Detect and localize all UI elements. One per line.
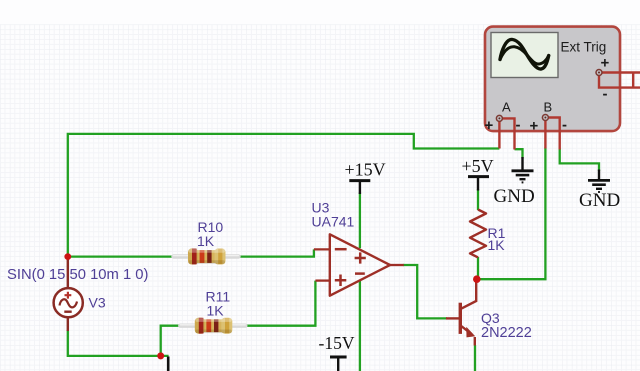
svg-text:+15V: +15V xyxy=(345,160,386,180)
svg-text:Ext Trig: Ext Trig xyxy=(561,40,607,55)
svg-text:+: + xyxy=(601,55,610,72)
svg-text:A: A xyxy=(502,100,511,115)
svg-text:-: - xyxy=(603,86,608,103)
svg-text:-: - xyxy=(562,117,567,134)
svg-text:1K: 1K xyxy=(488,237,506,253)
svg-text:SIN(0 15 50 10m 1 0): SIN(0 15 50 10m 1 0) xyxy=(7,267,149,283)
svg-text:1K: 1K xyxy=(197,233,215,249)
svg-text:V3: V3 xyxy=(89,295,106,311)
svg-text:+: + xyxy=(530,118,539,135)
svg-text:Q3: Q3 xyxy=(481,310,500,326)
svg-text:+: + xyxy=(485,117,494,134)
svg-text:-: - xyxy=(516,117,521,134)
svg-text:-15V: -15V xyxy=(319,333,355,353)
svg-text:+5V: +5V xyxy=(462,156,494,176)
svg-text:B: B xyxy=(544,100,553,115)
svg-text:GND: GND xyxy=(494,186,535,207)
svg-text:UA741: UA741 xyxy=(312,213,355,229)
svg-text:2N2222: 2N2222 xyxy=(481,325,532,341)
svg-text:GND: GND xyxy=(579,190,620,211)
svg-text:1K: 1K xyxy=(207,303,225,319)
